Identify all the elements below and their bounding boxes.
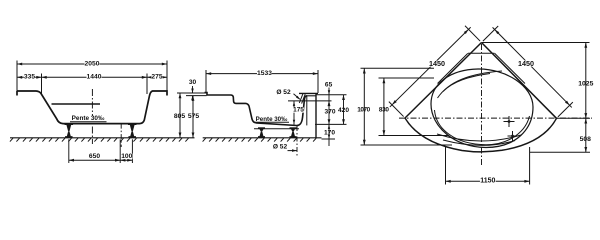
svg-text:175: 175 xyxy=(293,107,304,114)
svg-text:575: 575 xyxy=(188,113,200,120)
svg-text:335: 335 xyxy=(24,74,35,81)
svg-text:Ø 52: Ø 52 xyxy=(273,144,288,151)
svg-text:650: 650 xyxy=(89,153,100,160)
svg-text:100: 100 xyxy=(121,153,132,160)
svg-text:1070: 1070 xyxy=(357,107,370,114)
svg-text:Ø 52: Ø 52 xyxy=(276,89,291,96)
svg-text:508: 508 xyxy=(580,136,592,143)
svg-text:1450: 1450 xyxy=(429,59,445,68)
svg-text:1450: 1450 xyxy=(518,59,534,68)
svg-text:805: 805 xyxy=(174,113,186,120)
svg-text:370: 370 xyxy=(324,108,335,115)
svg-text:65: 65 xyxy=(325,81,333,88)
svg-text:Pente 30‰: Pente 30‰ xyxy=(72,115,105,122)
svg-text:30: 30 xyxy=(189,79,197,86)
svg-text:2050: 2050 xyxy=(85,61,100,68)
svg-text:1533: 1533 xyxy=(257,70,272,77)
svg-text:830: 830 xyxy=(379,107,390,114)
svg-text:170: 170 xyxy=(324,130,335,137)
svg-text:275: 275 xyxy=(151,74,162,81)
svg-text:1150: 1150 xyxy=(480,178,495,185)
svg-text:420: 420 xyxy=(338,107,349,114)
svg-text:1440: 1440 xyxy=(87,74,102,81)
svg-text:1025: 1025 xyxy=(578,81,593,88)
